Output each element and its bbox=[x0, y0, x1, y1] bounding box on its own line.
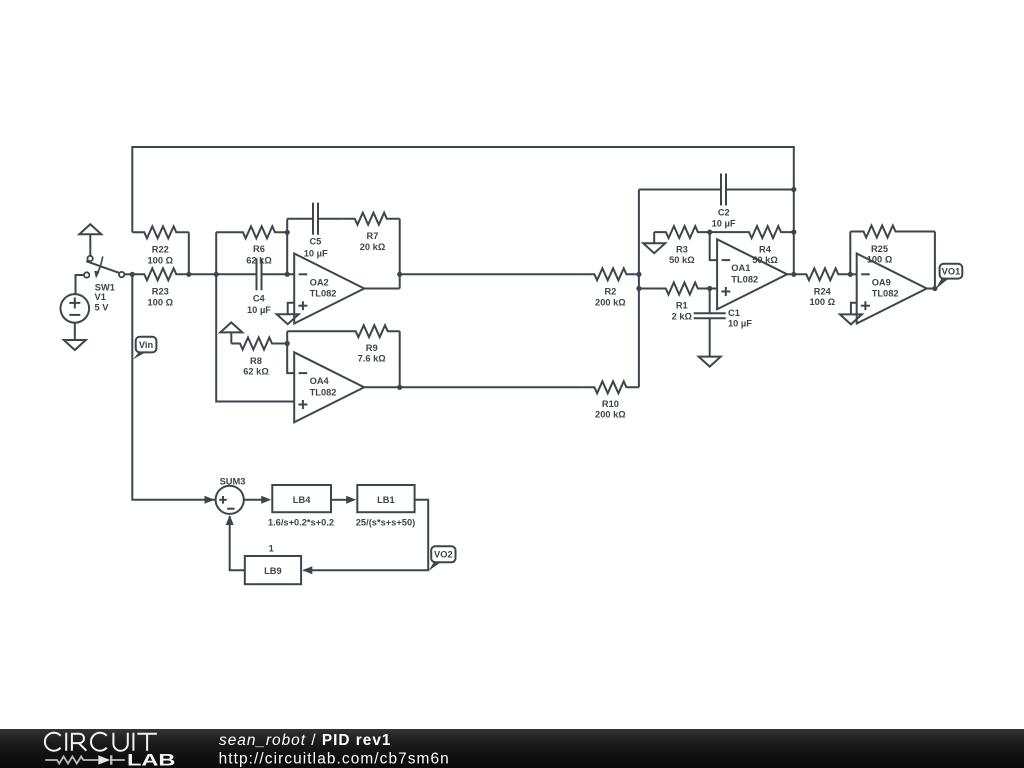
svg-text:R22: R22 bbox=[152, 245, 169, 255]
label R7 bbox=[367, 231, 379, 241]
wire R24 to OA9 minus bbox=[850, 273, 856, 275]
svg-text:C5: C5 bbox=[309, 236, 321, 246]
label R4 bbox=[759, 245, 772, 255]
wire R25 right vertical bbox=[934, 232, 936, 289]
wire OA4 output stub bbox=[364, 386, 400, 388]
footer url bbox=[219, 750, 450, 767]
node junction at R23 left bbox=[130, 272, 135, 277]
svg-text:20 kΩ: 20 kΩ bbox=[360, 242, 386, 252]
node junction R1 left bbox=[636, 286, 641, 291]
svg-text:OA1: OA1 bbox=[731, 263, 750, 273]
svg-text:100 Ω: 100 Ω bbox=[148, 255, 174, 265]
svg-text:10 µF: 10 µF bbox=[712, 219, 736, 229]
resistor R2 bbox=[583, 268, 639, 280]
wire R22 right drop bbox=[188, 232, 190, 274]
svg-text:R4: R4 bbox=[759, 245, 772, 255]
wire LB1 to LB9 bbox=[304, 500, 429, 570]
label C5 bbox=[309, 236, 321, 246]
svg-text:SW1: SW1 bbox=[95, 282, 115, 292]
value OA2 TL082 bbox=[310, 289, 337, 299]
value R25 100 Ohm bbox=[867, 255, 893, 265]
node junction OA1 minus branch bbox=[707, 230, 712, 235]
label R25 bbox=[871, 244, 888, 254]
value OA4 TL082 bbox=[310, 387, 337, 397]
ground at OA2 non-inverting input bbox=[277, 314, 299, 324]
capacitor C4 bbox=[257, 258, 295, 290]
svg-text:100 Ω: 100 Ω bbox=[148, 297, 174, 307]
value C5 10 uF bbox=[304, 248, 328, 258]
op-amp OA4 bbox=[294, 352, 364, 422]
svg-text:C4: C4 bbox=[253, 294, 266, 304]
flag VO2 bbox=[429, 546, 456, 571]
wire Vin vertical down to summing block row bbox=[132, 274, 214, 500]
ground at OA9 plus bbox=[840, 314, 862, 324]
capacitor C5 bbox=[287, 203, 343, 235]
svg-text:SUM3: SUM3 bbox=[220, 476, 246, 486]
svg-text:100 Ω: 100 Ω bbox=[810, 297, 836, 307]
value LB9 gain 1 bbox=[269, 544, 274, 554]
value OA9 TL082 bbox=[872, 289, 899, 299]
svg-text:R7: R7 bbox=[367, 231, 379, 241]
wire OA4 plus input from input branch bbox=[216, 274, 294, 401]
label R3 bbox=[676, 245, 688, 255]
label R23 bbox=[152, 287, 169, 297]
value R3 50 kOhm bbox=[669, 255, 695, 265]
svg-text:R9: R9 bbox=[366, 343, 378, 353]
svg-text:200 kΩ: 200 kΩ bbox=[595, 410, 626, 420]
wire OA9 output stub bbox=[927, 288, 935, 290]
resistor R4 bbox=[710, 226, 794, 238]
label V1 bbox=[95, 292, 106, 302]
resistor R25 bbox=[850, 226, 935, 238]
value R4 50 kOhm bbox=[752, 255, 778, 265]
wire OA1 output stub bbox=[787, 273, 794, 275]
value C2 10 uF bbox=[712, 219, 736, 229]
ground below C1 bbox=[699, 357, 721, 367]
ground at R3 left bbox=[643, 232, 665, 253]
switch SW1 actuation arrow bbox=[94, 257, 103, 279]
label OA9 bbox=[872, 277, 891, 287]
wire switch to Vin junction bbox=[124, 273, 132, 275]
wire OA2 output to R2 bbox=[400, 273, 583, 275]
node junction R8 right bbox=[285, 341, 290, 346]
wire LB9 to SUM3 bbox=[230, 516, 245, 570]
capacitor C2 bbox=[639, 174, 794, 206]
op-amp OA9 bbox=[857, 254, 927, 324]
arrow into LB4 bbox=[261, 496, 271, 504]
flag Vin bbox=[133, 337, 157, 360]
node junction C2 right bbox=[791, 187, 796, 192]
ground below V1 bbox=[64, 340, 86, 350]
block LB1 bbox=[357, 485, 414, 512]
arrow into SUM3 bbox=[205, 496, 215, 504]
svg-text:TL082: TL082 bbox=[731, 274, 758, 284]
resistor R22 bbox=[132, 226, 189, 238]
label R9 bbox=[366, 343, 378, 353]
wire to OA1 inverting input bbox=[710, 232, 717, 260]
resistor R8 bbox=[231, 338, 287, 350]
wire OA4 output to R10 bbox=[400, 386, 583, 388]
value R6 62 kOhm bbox=[246, 255, 272, 265]
resistor R6 bbox=[216, 226, 287, 238]
resistor R3 bbox=[654, 226, 710, 238]
node junction OA4 output bbox=[397, 385, 402, 390]
svg-text:sean_robot / PID rev1: sean_robot / PID rev1 bbox=[219, 732, 391, 749]
svg-text:V1: V1 bbox=[95, 292, 106, 302]
wire input branch vertical bbox=[215, 232, 217, 274]
arrow into SUM3 bottom bbox=[226, 515, 234, 525]
capacitor C1 bbox=[694, 289, 726, 357]
svg-text:R10: R10 bbox=[602, 399, 619, 409]
svg-text:R8: R8 bbox=[250, 356, 262, 366]
svg-text:5 V: 5 V bbox=[95, 302, 110, 312]
value C4 10 uF bbox=[247, 305, 271, 315]
label R22 bbox=[152, 245, 169, 255]
block LB4 bbox=[272, 485, 331, 512]
arrow into LB9 bbox=[302, 566, 312, 574]
resistor R9 with feedback wire bbox=[287, 325, 400, 387]
svg-text:R23: R23 bbox=[152, 287, 169, 297]
value OA1 TL082 bbox=[731, 274, 758, 284]
svg-text:TL082: TL082 bbox=[310, 289, 337, 299]
label R8 bbox=[250, 356, 262, 366]
switch SW1 pole terminal bbox=[84, 272, 89, 277]
switch SW1 top throw terminal bbox=[87, 256, 92, 261]
svg-text:50 kΩ: 50 kΩ bbox=[669, 255, 695, 265]
label C1 bbox=[728, 308, 740, 318]
label OA4 bbox=[310, 376, 330, 386]
wire OA1 input branch vertical bbox=[638, 190, 640, 388]
voltage source V1 bbox=[61, 294, 90, 323]
value R22 100 Ohm bbox=[148, 255, 174, 265]
node junction at input branch bbox=[214, 272, 219, 277]
svg-text:25/(s*s+s+50): 25/(s*s+s+50) bbox=[356, 518, 415, 528]
value R10 200 kOhm bbox=[595, 410, 626, 420]
svg-text:200 kΩ: 200 kΩ bbox=[595, 297, 626, 307]
wire OA4 minus node vertical bbox=[287, 331, 294, 373]
value LB1 transfer function bbox=[356, 518, 415, 528]
wire R1 to OA1 plus bbox=[710, 288, 717, 290]
resistor R1 bbox=[639, 283, 710, 295]
node junction R2 right bbox=[636, 272, 641, 277]
label R6 bbox=[253, 244, 265, 254]
value R23 100 Ohm bbox=[148, 297, 174, 307]
svg-text:1.6/s+0.2*s+0.2: 1.6/s+0.2*s+0.2 bbox=[268, 518, 334, 528]
label OA2 bbox=[310, 277, 329, 287]
wire minus node vertical OA2 bbox=[286, 219, 288, 275]
value R1 2 kOhm bbox=[672, 311, 693, 321]
svg-text:R2: R2 bbox=[604, 287, 616, 297]
value C1 10 uF bbox=[728, 319, 752, 329]
CircuitLab logo CIRCUIT wordmark bbox=[45, 733, 157, 751]
svg-text:10 µF: 10 µF bbox=[247, 305, 271, 315]
svg-text:LAB: LAB bbox=[127, 752, 175, 768]
svg-text:LB1: LB1 bbox=[377, 495, 395, 505]
node junction OA9 minus bbox=[848, 272, 853, 277]
op-amp OA2 bbox=[294, 254, 364, 324]
svg-text:TL082: TL082 bbox=[872, 289, 899, 299]
block LB9 bbox=[245, 556, 301, 584]
svg-text:LB4: LB4 bbox=[293, 495, 311, 505]
wire OA2 non-inverting step bbox=[288, 303, 295, 315]
wire OA2 output vertical bbox=[399, 219, 401, 289]
switch SW1 right throw terminal bbox=[119, 272, 124, 277]
svg-text:62 kΩ: 62 kΩ bbox=[243, 367, 269, 377]
svg-text:2 kΩ: 2 kΩ bbox=[672, 311, 693, 321]
svg-text:62 kΩ: 62 kΩ bbox=[246, 255, 272, 265]
value R24 100 Ohm bbox=[810, 297, 836, 307]
svg-text:OA2: OA2 bbox=[310, 277, 329, 287]
ground (up) above SW1 bbox=[79, 224, 101, 255]
svg-text:1: 1 bbox=[269, 544, 274, 554]
svg-text:TL082: TL082 bbox=[310, 387, 337, 397]
wire OA2 output stub bbox=[364, 288, 400, 290]
svg-text:VO1: VO1 bbox=[942, 267, 961, 277]
svg-text:OA4: OA4 bbox=[310, 376, 330, 386]
node junction R22/R23 bbox=[186, 272, 191, 277]
node junction OA1 plus input bbox=[707, 286, 712, 291]
ground (up) at R8 bbox=[220, 322, 242, 343]
label C4 bbox=[253, 294, 266, 304]
svg-text:10 µF: 10 µF bbox=[728, 319, 752, 329]
wire V1 top to switch pole bbox=[76, 275, 85, 294]
value R7 20 kOhm bbox=[360, 242, 386, 252]
value R8 62 kOhm bbox=[243, 367, 269, 377]
switch SW1 blade bbox=[86, 261, 119, 273]
CircuitLab logo LAB wordmark bbox=[127, 752, 175, 768]
wire LB4 to LB1 bbox=[331, 499, 347, 501]
flag VO1 bbox=[936, 264, 963, 289]
resistor R23 bbox=[132, 268, 189, 280]
wire SUM3 to LB4 bbox=[244, 499, 262, 501]
value 5 V bbox=[95, 302, 110, 312]
svg-text:OA9: OA9 bbox=[872, 277, 891, 287]
resistor R7 bbox=[343, 213, 400, 225]
wire R23 to C4 bbox=[189, 273, 257, 275]
svg-text:R6: R6 bbox=[253, 244, 265, 254]
svg-text:LB9: LB9 bbox=[264, 566, 282, 576]
wire V1 bottom to ground bbox=[74, 323, 76, 340]
wire top feedback loop from R22 to OA1 output node bbox=[132, 147, 794, 274]
svg-text:http://circuitlab.com/cb7sm6n: http://circuitlab.com/cb7sm6n bbox=[219, 750, 450, 767]
value LB4 transfer function bbox=[268, 518, 334, 528]
summing junction SUM3 bbox=[216, 486, 244, 514]
label OA1 bbox=[731, 263, 750, 273]
resistor R10 bbox=[583, 381, 639, 393]
footer title sean_robot / PID rev1 bbox=[219, 732, 391, 749]
svg-text:R3: R3 bbox=[676, 245, 688, 255]
node junction VO1 bbox=[932, 286, 937, 291]
node junction OA2 inverting input bbox=[285, 272, 290, 277]
label R24 bbox=[814, 286, 832, 296]
label R1 bbox=[676, 301, 688, 311]
svg-text:Vin: Vin bbox=[139, 340, 154, 350]
node junction OA2 output bbox=[397, 272, 402, 277]
value R2 200 kOhm bbox=[595, 297, 626, 307]
wire OA9 minus vertical bbox=[849, 232, 851, 275]
svg-text:R24: R24 bbox=[814, 286, 832, 296]
arrow into LB1 bbox=[346, 496, 356, 504]
footer bar bbox=[0, 729, 1024, 768]
svg-text:VO2: VO2 bbox=[434, 550, 453, 560]
node junction R6 right bbox=[285, 230, 290, 235]
CircuitLab logo resistor-diode glyph bbox=[45, 755, 125, 764]
svg-text:R1: R1 bbox=[676, 301, 688, 311]
label SW1 bbox=[95, 282, 115, 292]
svg-text:C1: C1 bbox=[728, 308, 740, 318]
resistor R24 bbox=[794, 268, 851, 280]
label R2 bbox=[604, 287, 616, 297]
wire OA9 plus step bbox=[851, 303, 857, 315]
label SUM3 bbox=[220, 476, 246, 486]
label C2 bbox=[718, 208, 730, 218]
svg-text:R25: R25 bbox=[871, 244, 888, 254]
svg-text:C2: C2 bbox=[718, 208, 730, 218]
svg-text:7.6 kΩ: 7.6 kΩ bbox=[358, 354, 387, 364]
op-amp OA1 bbox=[717, 239, 787, 309]
svg-text:10 µF: 10 µF bbox=[304, 248, 328, 258]
value R9 7.6 kOhm bbox=[358, 354, 387, 364]
label R10 bbox=[602, 399, 619, 409]
node junction R4 right bbox=[791, 230, 796, 235]
node junction OA1 output bbox=[791, 272, 796, 277]
